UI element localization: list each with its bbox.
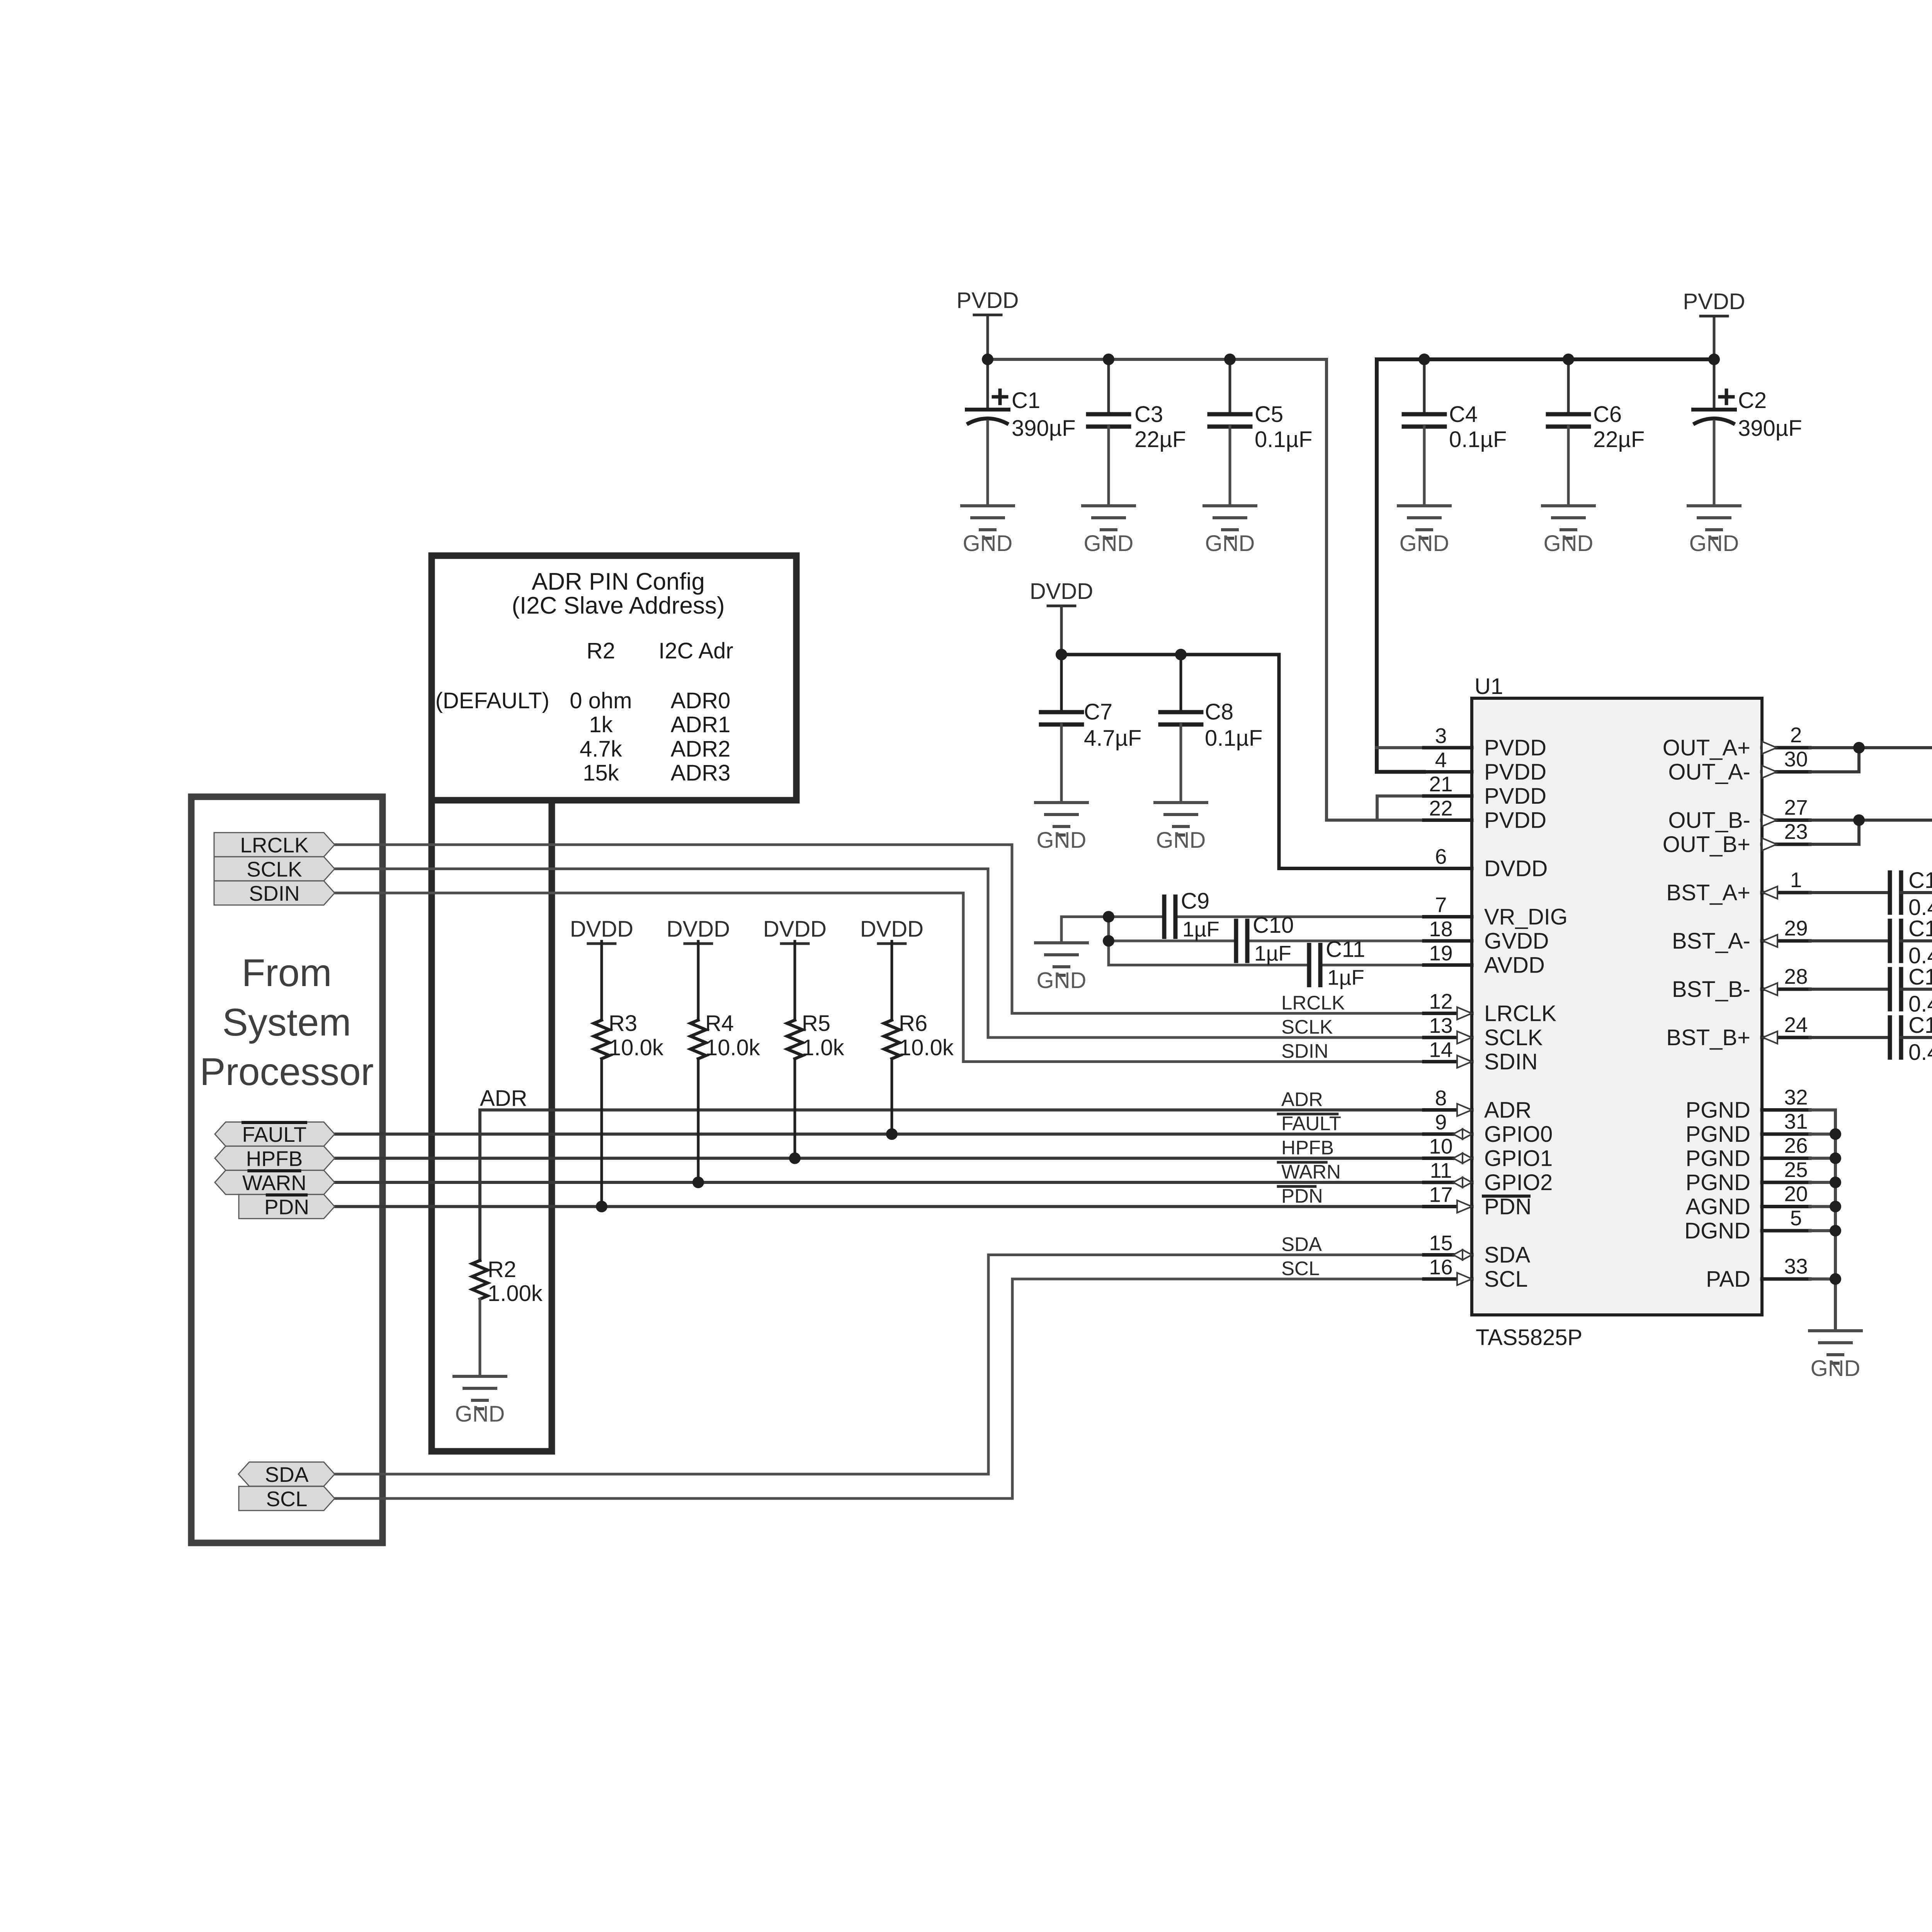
svg-text:LRCLK: LRCLK — [1281, 992, 1345, 1014]
svg-text:DVDD: DVDD — [1030, 579, 1093, 604]
svg-text:ADR: ADR — [1484, 1098, 1531, 1123]
svg-text:30: 30 — [1784, 747, 1808, 771]
svg-text:C3: C3 — [1134, 402, 1163, 427]
svg-text:HPFB: HPFB — [1281, 1137, 1334, 1159]
svg-text:GND: GND — [1037, 828, 1087, 853]
svg-text:R2: R2 — [587, 638, 615, 663]
svg-text:GND: GND — [1205, 531, 1255, 556]
svg-text:WARN: WARN — [1281, 1161, 1341, 1183]
svg-text:ADR1: ADR1 — [671, 712, 731, 737]
svg-text:15k: 15k — [583, 760, 619, 786]
svg-text:PVDD: PVDD — [1484, 808, 1546, 833]
svg-text:21: 21 — [1429, 772, 1452, 796]
svg-text:GND: GND — [1156, 828, 1206, 853]
svg-text:22µF: 22µF — [1134, 427, 1186, 452]
svg-text:R5: R5 — [802, 1011, 830, 1036]
svg-text:4: 4 — [1435, 748, 1447, 772]
svg-text:DVDD: DVDD — [1484, 856, 1548, 881]
svg-text:8: 8 — [1435, 1086, 1447, 1110]
svg-text:GPIO1: GPIO1 — [1484, 1146, 1553, 1171]
svg-text:DVDD: DVDD — [860, 917, 923, 942]
svg-text:SDIN: SDIN — [1484, 1049, 1538, 1075]
svg-text:15: 15 — [1429, 1231, 1452, 1255]
svg-text:DVDD: DVDD — [667, 917, 730, 942]
svg-text:C7: C7 — [1084, 699, 1112, 724]
svg-text:SCL: SCL — [266, 1487, 308, 1511]
svg-text:C12: C12 — [1908, 916, 1932, 941]
svg-text:R2: R2 — [488, 1257, 516, 1282]
svg-text:AVDD: AVDD — [1484, 953, 1545, 978]
svg-text:SCLK: SCLK — [1281, 1016, 1333, 1038]
svg-text:390µF: 390µF — [1012, 416, 1076, 441]
svg-text:Processor: Processor — [200, 1050, 374, 1094]
svg-text:25: 25 — [1784, 1158, 1808, 1182]
svg-text:PVDD: PVDD — [1683, 289, 1745, 314]
svg-text:R6: R6 — [899, 1011, 927, 1036]
svg-text:C2: C2 — [1738, 388, 1767, 413]
svg-text:22: 22 — [1429, 796, 1452, 820]
svg-text:C5: C5 — [1255, 402, 1283, 427]
svg-text:GND: GND — [1811, 1356, 1861, 1381]
svg-text:HPFB: HPFB — [246, 1147, 303, 1171]
svg-text:WARN: WARN — [242, 1171, 306, 1195]
svg-text:1.0k: 1.0k — [802, 1035, 845, 1060]
svg-text:29: 29 — [1784, 916, 1808, 940]
svg-text:1µF: 1µF — [1182, 917, 1219, 941]
svg-text:22µF: 22µF — [1593, 427, 1645, 452]
svg-text:SCLK: SCLK — [1484, 1025, 1543, 1050]
svg-text:VR_DIG: VR_DIG — [1484, 905, 1568, 930]
svg-text:24: 24 — [1784, 1013, 1808, 1037]
svg-text:6: 6 — [1435, 845, 1447, 869]
svg-text:13: 13 — [1429, 1014, 1452, 1037]
svg-text:12: 12 — [1429, 990, 1452, 1014]
svg-text:C13: C13 — [1908, 964, 1932, 990]
svg-text:390µF: 390µF — [1738, 416, 1802, 441]
svg-text:0.1µF: 0.1µF — [1255, 427, 1312, 452]
svg-text:31: 31 — [1784, 1109, 1808, 1133]
svg-text:OUT_B+: OUT_B+ — [1663, 832, 1750, 857]
svg-text:10.0k: 10.0k — [609, 1035, 664, 1060]
svg-text:2: 2 — [1790, 723, 1802, 747]
svg-text:SDA: SDA — [1484, 1243, 1531, 1268]
svg-text:ADR2: ADR2 — [671, 736, 731, 762]
svg-text:SDA: SDA — [265, 1463, 308, 1486]
svg-text:10: 10 — [1429, 1134, 1452, 1158]
svg-text:SCLK: SCLK — [247, 857, 302, 881]
svg-text:1.00k: 1.00k — [488, 1281, 543, 1306]
svg-text:16: 16 — [1429, 1255, 1452, 1279]
svg-text:OUT_A+: OUT_A+ — [1663, 735, 1750, 760]
svg-text:GND: GND — [1037, 968, 1087, 993]
svg-text:GND: GND — [1544, 531, 1594, 556]
svg-text:TAS5825P: TAS5825P — [1476, 1325, 1582, 1350]
svg-text:AGND: AGND — [1685, 1194, 1750, 1219]
svg-text:SDIN: SDIN — [1281, 1040, 1328, 1062]
svg-text:27: 27 — [1784, 796, 1808, 820]
svg-text:BST_A-: BST_A- — [1672, 929, 1750, 954]
svg-text:I2C Adr: I2C Adr — [658, 638, 733, 663]
svg-text:PVDD: PVDD — [956, 288, 1019, 313]
svg-text:(DEFAULT): (DEFAULT) — [435, 688, 549, 713]
svg-text:DGND: DGND — [1684, 1218, 1750, 1243]
svg-text:0 ohm: 0 ohm — [570, 688, 632, 713]
svg-text:GND: GND — [963, 531, 1013, 556]
svg-text:From: From — [241, 951, 332, 995]
svg-text:PGND: PGND — [1685, 1146, 1750, 1171]
svg-text:LRCLK: LRCLK — [240, 833, 309, 857]
svg-text:1µF: 1µF — [1254, 941, 1291, 965]
svg-text:9: 9 — [1435, 1110, 1447, 1134]
svg-text:SDA: SDA — [1281, 1233, 1322, 1255]
svg-text:14: 14 — [1429, 1038, 1452, 1062]
svg-text:PGND: PGND — [1685, 1170, 1750, 1195]
svg-text:PDN: PDN — [1281, 1185, 1323, 1207]
svg-text:FAULT: FAULT — [242, 1122, 306, 1146]
svg-text:R3: R3 — [609, 1011, 637, 1036]
svg-text:DVDD: DVDD — [570, 917, 633, 942]
svg-text:PDN: PDN — [264, 1195, 309, 1219]
svg-text:ADR: ADR — [480, 1086, 527, 1111]
svg-text:32: 32 — [1784, 1085, 1808, 1109]
svg-text:GND: GND — [455, 1401, 505, 1427]
svg-text:C16: C16 — [1908, 868, 1932, 893]
svg-text:GVDD: GVDD — [1484, 929, 1549, 954]
svg-text:23: 23 — [1784, 820, 1808, 844]
svg-text:1: 1 — [1790, 868, 1802, 892]
svg-text:SDIN: SDIN — [249, 881, 299, 905]
svg-text:GND: GND — [1084, 531, 1134, 556]
svg-text:ADR: ADR — [1281, 1088, 1323, 1111]
svg-text:0.47µF: 0.47µF — [1908, 1040, 1932, 1065]
svg-text:11: 11 — [1430, 1158, 1452, 1182]
svg-text:PGND: PGND — [1685, 1098, 1750, 1123]
svg-text:C4: C4 — [1449, 402, 1478, 427]
svg-text:C6: C6 — [1593, 402, 1622, 427]
svg-text:C17: C17 — [1908, 1013, 1932, 1038]
svg-text:0.1µF: 0.1µF — [1449, 427, 1507, 452]
svg-text:PVDD: PVDD — [1484, 760, 1546, 785]
svg-text:C8: C8 — [1205, 699, 1233, 724]
svg-text:R4: R4 — [705, 1011, 734, 1036]
svg-text:SCL: SCL — [1484, 1267, 1528, 1292]
svg-text:PVDD: PVDD — [1484, 735, 1546, 760]
svg-text:BST_B-: BST_B- — [1672, 977, 1750, 1002]
svg-text:C10: C10 — [1253, 913, 1294, 938]
svg-text:3: 3 — [1435, 724, 1447, 748]
svg-text:33: 33 — [1784, 1254, 1808, 1278]
svg-text:17: 17 — [1429, 1183, 1452, 1207]
svg-text:ADR3: ADR3 — [671, 760, 731, 786]
svg-text:C11: C11 — [1326, 937, 1365, 962]
svg-text:C1: C1 — [1012, 388, 1040, 413]
svg-text:18: 18 — [1429, 917, 1452, 941]
svg-text:GND: GND — [1400, 531, 1449, 556]
svg-text:BST_A+: BST_A+ — [1666, 880, 1750, 905]
svg-text:(I2C Slave Address): (I2C Slave Address) — [512, 592, 724, 619]
svg-text:4.7µF: 4.7µF — [1084, 726, 1141, 751]
svg-text:1k: 1k — [589, 712, 613, 737]
svg-text:DVDD: DVDD — [763, 917, 827, 942]
svg-text:OUT_A-: OUT_A- — [1668, 760, 1750, 785]
svg-text:4.7k: 4.7k — [580, 736, 622, 762]
svg-text:0.1µF: 0.1µF — [1205, 726, 1262, 751]
svg-text:U1: U1 — [1475, 674, 1503, 699]
svg-text:5: 5 — [1790, 1206, 1802, 1230]
svg-text:PVDD: PVDD — [1484, 784, 1546, 809]
svg-text:System: System — [222, 1001, 351, 1044]
svg-text:GND: GND — [1689, 531, 1739, 556]
svg-text:ADR0: ADR0 — [671, 688, 731, 713]
svg-text:ADR PIN Config: ADR PIN Config — [532, 568, 705, 595]
svg-text:SCL: SCL — [1281, 1257, 1320, 1279]
svg-text:BST_B+: BST_B+ — [1666, 1025, 1750, 1050]
svg-text:GPIO0: GPIO0 — [1484, 1122, 1553, 1147]
svg-text:LRCLK: LRCLK — [1484, 1001, 1556, 1026]
svg-text:PDN: PDN — [1484, 1194, 1531, 1219]
svg-text:GPIO2: GPIO2 — [1484, 1170, 1553, 1195]
svg-text:19: 19 — [1429, 941, 1452, 965]
svg-text:28: 28 — [1784, 964, 1808, 988]
svg-text:1µF: 1µF — [1327, 966, 1364, 990]
svg-text:FAULT: FAULT — [1281, 1112, 1341, 1134]
svg-text:PGND: PGND — [1685, 1122, 1750, 1147]
svg-text:PAD: PAD — [1706, 1267, 1750, 1292]
svg-text:20: 20 — [1784, 1182, 1808, 1206]
svg-text:C9: C9 — [1181, 889, 1209, 914]
svg-text:7: 7 — [1435, 893, 1447, 917]
svg-text:OUT_B-: OUT_B- — [1668, 808, 1750, 833]
svg-text:10.0k: 10.0k — [705, 1035, 760, 1060]
svg-text:26: 26 — [1784, 1134, 1808, 1158]
svg-text:10.0k: 10.0k — [899, 1035, 954, 1060]
